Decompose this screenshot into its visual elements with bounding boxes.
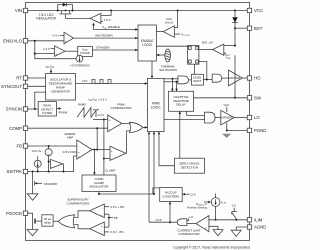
wire SHUTDOWN xyxy=(74,37,139,39)
current source I-SS xyxy=(34,160,41,167)
svg-text:Copyright © 2017, Texas Instru: Copyright © 2017, Texas Instruments Inco… xyxy=(173,245,250,249)
comparator U-PG1 xyxy=(90,204,105,218)
amp U-SS track buffer xyxy=(50,159,62,168)
wire RT xyxy=(28,77,46,79)
wire ramp to pwm comp xyxy=(93,119,108,121)
svg-text:VSW: VSW xyxy=(226,56,231,59)
filter block 5us xyxy=(65,50,78,52)
driver U-HO xyxy=(229,70,243,86)
svg-text:PGOOD: PGOOD xyxy=(6,211,22,216)
svg-text:VCC: VCC xyxy=(254,8,263,13)
op-amp U-LDO 7.5V xyxy=(90,13,101,23)
wire SW xyxy=(194,97,248,99)
svg-text:BST_UV: BST_UV xyxy=(202,40,213,44)
outer IC boundary xyxy=(26,3,250,241)
pin ILIM xyxy=(247,218,251,222)
25us delay block xyxy=(42,215,53,226)
ground AGND2 xyxy=(231,230,241,236)
node COMP junction xyxy=(96,127,98,129)
wire zero cross to adaptive xyxy=(179,111,181,158)
ground AGND1 xyxy=(213,230,223,236)
driver U-LO xyxy=(221,110,235,125)
wire enable to BST latch xyxy=(156,45,187,47)
wire latch to level shift xyxy=(193,64,195,74)
enable logic block U-EN xyxy=(138,25,156,61)
wire level shift to and2 xyxy=(203,79,212,81)
wire PG2 to or gate xyxy=(74,225,90,229)
BST latch xyxy=(188,45,199,64)
pin SYNCOUT xyxy=(23,84,27,88)
svg-text:RT: RT xyxy=(16,76,22,81)
comparator U-SD 0.4V xyxy=(64,32,74,44)
svg-text:RAMP: RAMP xyxy=(78,103,86,107)
svg-text:AGND: AGND xyxy=(254,225,266,230)
wire latch to HO and gate xyxy=(199,62,207,80)
svg-text:CLK: CLK xyxy=(82,79,88,83)
or-gate U-PG pointing left xyxy=(58,215,75,228)
and-gate U-A2 xyxy=(212,74,222,82)
svg-text:FILTER: FILTER xyxy=(80,51,89,55)
wire OCP xyxy=(149,221,177,223)
wire PGOOD xyxy=(28,213,33,216)
svg-text:+: + xyxy=(101,213,103,217)
svg-text:FILTER: FILTER xyxy=(42,111,53,115)
svg-text:-: - xyxy=(109,127,110,131)
svg-text:HYSTERESIS: HYSTERESIS xyxy=(70,63,89,67)
wire EN to 1.2V comp xyxy=(35,53,55,55)
diode D-LDO on bypass rail xyxy=(63,3,67,7)
pin SW xyxy=(247,96,251,100)
pin PGND xyxy=(247,128,251,132)
wire VIN rail to VCC xyxy=(28,10,248,12)
pin RT xyxy=(23,76,27,80)
wire BST xyxy=(235,27,247,29)
wire ILIM xyxy=(209,219,247,221)
svg-text:0.8 V: 0.8 V xyxy=(63,150,70,154)
svg-text:STANDBY: STANDBY xyxy=(96,46,110,50)
wire comp clamp to hiccup xyxy=(99,188,160,194)
wire to hiccup bottom xyxy=(169,202,171,223)
svg-text:LOGIC: LOGIC xyxy=(142,43,153,47)
wire pwm to LO gate xyxy=(164,119,205,121)
comp clamp modulator block xyxy=(82,175,116,192)
hiccup counters block xyxy=(160,188,183,202)
svg-text:-: - xyxy=(111,157,112,161)
svg-text:DRIVER: DRIVER xyxy=(222,116,233,120)
wire enable logic to pwm logic xyxy=(151,61,153,78)
wire to comp clamp xyxy=(93,150,95,175)
svg-text:VCC: VCC xyxy=(224,103,230,107)
svg-text:FB: FB xyxy=(17,144,23,149)
svg-text:GENERATOR: GENERATOR xyxy=(51,90,71,94)
or-gate U-OR1 xyxy=(130,122,144,132)
transistor Q-LDO pass devices xyxy=(61,11,63,14)
svg-text:REGULATOR: REGULATOR xyxy=(36,17,56,21)
ramp sawtooth waveform xyxy=(77,108,96,118)
svg-text:COMPARATOR: COMPARATOR xyxy=(110,106,132,110)
pin SS/TRK xyxy=(23,169,27,173)
pin SYNCIN xyxy=(23,107,27,111)
svg-text:delay: delay xyxy=(44,220,51,224)
current source I-ILIM xyxy=(211,198,220,207)
svg-text:COMPARATOR: COMPARATOR xyxy=(178,232,200,236)
wire LDO bypass rail xyxy=(58,5,73,11)
wire STANDBY xyxy=(92,49,138,51)
svg-text:EN/UVLO: EN/UVLO xyxy=(3,38,23,43)
svg-text:COUNTERS: COUNTERS xyxy=(162,194,179,198)
comparator U-PG2 xyxy=(90,222,105,236)
wire CL comp minus to ground xyxy=(209,226,218,229)
svg-text:CLK: CLK xyxy=(190,193,196,197)
svg-text:OCP: OCP xyxy=(156,218,162,222)
svg-text:-: - xyxy=(78,145,79,149)
svg-text:SHIFT: SHIFT xyxy=(193,79,201,83)
svg-text:0.4 V: 0.4 V xyxy=(53,34,60,38)
comparator U-SB 1.2V xyxy=(55,46,66,57)
svg-text:FB: FB xyxy=(114,216,118,220)
amp U-CLAMP buffer xyxy=(110,146,126,160)
comparator U-CL current limit xyxy=(196,216,209,232)
pin VIN xyxy=(23,8,27,12)
svg-text:FPWM: FPWM xyxy=(59,111,68,115)
svg-text:SYNCOUT: SYNCOUT xyxy=(1,84,22,89)
wire clamp vertical xyxy=(103,120,105,176)
svg-text:+: + xyxy=(111,149,113,153)
node dots on VIN rail xyxy=(57,10,59,12)
ground below Q-SS xyxy=(32,187,34,194)
svg-text:CLAMP: CLAMP xyxy=(105,168,115,172)
wire LO driver to PGND xyxy=(227,122,247,130)
and-gate U-A3 xyxy=(205,112,215,123)
comparator U-PWM xyxy=(108,115,122,132)
wire FB sense vertical xyxy=(104,213,109,215)
svg-text:PGND: PGND xyxy=(254,128,266,133)
ground below Q-PG xyxy=(32,228,34,230)
level shift block xyxy=(192,74,204,85)
and-gate U-A1 xyxy=(178,76,189,84)
wire BST rail through driver xyxy=(234,55,236,98)
pin COMP xyxy=(23,126,27,130)
svg-text:+: + xyxy=(65,39,67,43)
wire PWM to HO gate xyxy=(164,78,178,80)
svg-text:-: - xyxy=(102,231,103,235)
wire pwm logic bottom feeds xyxy=(148,132,150,223)
label 0.8V ref xyxy=(70,151,77,153)
svg-text:+: + xyxy=(109,118,111,122)
transistor Q-PG pgood xyxy=(32,217,34,228)
peak detect filter block xyxy=(38,102,56,116)
svg-text:UVLO: UVLO xyxy=(165,21,174,25)
wire EN/UVLO xyxy=(28,40,64,42)
svg-text:VIN: VIN xyxy=(15,8,22,13)
svg-text:SW: SW xyxy=(254,95,262,100)
adaptive deadtime delay block xyxy=(169,91,194,111)
pin PGOOD xyxy=(23,211,27,215)
wire VCC ENABLE xyxy=(94,24,139,30)
svg-text:SHUTDOWN: SHUTDOWN xyxy=(159,68,177,72)
svg-text:-: - xyxy=(206,219,207,223)
pwm logic block xyxy=(148,78,165,131)
pin LO xyxy=(247,115,251,119)
svg-text:-: - xyxy=(56,47,57,51)
svg-text:0.8 V + 8%: 0.8 V + 8% xyxy=(111,205,125,209)
svg-text:-: - xyxy=(102,206,103,210)
zero-cross detection block xyxy=(174,158,204,173)
wire SYNCOUT xyxy=(28,85,46,87)
thermal shutdown sensor xyxy=(165,49,171,62)
pin FB xyxy=(23,144,27,148)
svg-text:BST: BST xyxy=(254,26,263,31)
wire CLK into hiccup xyxy=(185,193,190,195)
label FPWM xyxy=(57,108,61,110)
svg-text:+: + xyxy=(101,224,103,228)
svg-text:ILIM: ILIM xyxy=(254,217,263,222)
pin EN/UVLO xyxy=(23,39,27,43)
svg-text:HO: HO xyxy=(254,76,261,81)
wire FB xyxy=(28,145,77,147)
wire SYNCIN xyxy=(28,108,39,110)
svg-text:COMP: COMP xyxy=(9,126,22,131)
wire delay to PGOOD fet gate xyxy=(36,220,42,222)
wire EN vertical xyxy=(35,41,76,59)
wire COMP xyxy=(28,127,108,129)
svg-text:COMPARATORS: COMPARATORS xyxy=(66,202,89,206)
svg-text:0.8 V - 8%: 0.8 V - 8% xyxy=(111,230,125,234)
oscillator block xyxy=(46,74,76,101)
svg-text:+: + xyxy=(78,155,80,159)
pin HO xyxy=(247,76,251,80)
svg-text:-: - xyxy=(48,149,49,153)
pin BST xyxy=(247,26,251,30)
svg-text:110 mV: 110 mV xyxy=(32,149,42,153)
svg-text:1.2 V: 1.2 V xyxy=(43,47,50,51)
svg-text:LO: LO xyxy=(254,115,260,120)
wire CLK with pulse train xyxy=(76,83,148,85)
wire PG1 to or gate xyxy=(74,211,90,218)
svg-text:DELAY: DELAY xyxy=(176,103,186,107)
and-gate U-A4 ocp xyxy=(177,219,187,226)
svg-text:SYNCIN: SYNCIN xyxy=(6,107,22,112)
svg-text:DETECTION: DETECTION xyxy=(181,166,198,170)
svg-text:7.5 V: 7.5 V xyxy=(104,18,111,22)
diode D-BST xyxy=(234,11,236,46)
transistor Q-SS standby discharge xyxy=(32,171,34,173)
pin AGND xyxy=(247,225,251,229)
svg-text:0.3 V: 0.3 V xyxy=(98,113,105,117)
wire AGND xyxy=(236,227,247,230)
svg-text:+: + xyxy=(205,226,207,230)
svg-text:+: + xyxy=(56,52,58,56)
svg-text:AMP: AMP xyxy=(67,136,74,140)
wire error amp output xyxy=(92,149,97,151)
svg-text:SHUTDOWN: SHUTDOWN xyxy=(95,34,113,38)
svg-text:-: - xyxy=(65,34,66,38)
wire adaptive to LO gate xyxy=(187,111,205,115)
ground PGND xyxy=(222,134,231,138)
wire SS/TRK xyxy=(28,156,77,172)
svg-text:LOGIC: LOGIC xyxy=(151,106,162,110)
node dots EN xyxy=(34,40,36,42)
svg-text:SS/TRK: SS/TRK xyxy=(6,169,22,174)
wire SYNCIN to oscillator xyxy=(35,92,46,109)
svg-text:MODULATOR: MODULATOR xyxy=(90,185,110,189)
pin VCC xyxy=(247,8,251,12)
svg-text:STANDBY: STANDBY xyxy=(44,182,58,186)
svg-text:Resistor Sensing: Resistor Sensing xyxy=(187,205,207,209)
current source I-HYS hysteresis xyxy=(76,55,83,62)
